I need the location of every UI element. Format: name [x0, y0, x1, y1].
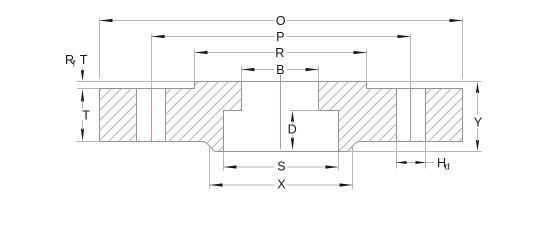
- raised face top extension line (left, for Rf arrow): [77, 81, 195, 83]
- svg-text:D: D: [288, 123, 297, 137]
- flange center line (vertical, pale red): [280, 75, 282, 149]
- R extension lines: [194, 50, 196, 81]
- D step extension line: [290, 110, 319, 112]
- svg-text:T: T: [82, 108, 90, 122]
- svg-text:f: f: [73, 58, 76, 69]
- svg-text:B: B: [276, 63, 284, 77]
- dimension S: [224, 166, 275, 168]
- hub bottom line across socket opening: [224, 151, 339, 153]
- X extension lines: [209, 147, 211, 190]
- Rf arrow (down to raised face top): [82, 67, 84, 72]
- dimension Y (vertical, right): [476, 82, 479, 93]
- bolt hole right (white): [397, 89, 425, 140]
- flange body right half (section, hatched): [319, 82, 463, 152]
- dimension Hd: [397, 162, 435, 164]
- svg-text:T: T: [80, 53, 88, 67]
- svg-text:R: R: [275, 46, 284, 60]
- bolt hole left (white): [137, 89, 165, 140]
- dimension X: [210, 184, 275, 186]
- svg-text:P: P: [276, 30, 284, 44]
- svg-text:S: S: [277, 159, 285, 173]
- P extension lines: [151, 34, 153, 88]
- raised face top line across bore: [195, 81, 367, 83]
- svg-text:X: X: [277, 178, 286, 192]
- S extension lines: [223, 152, 225, 171]
- B extension lines: [241, 67, 243, 82]
- dimension B: [242, 69, 275, 71]
- svg-text:d: d: [445, 162, 450, 173]
- O extension lines: [99, 18, 101, 79]
- flange top extension line (left, for T arrow): [77, 88, 100, 90]
- dimension P: [152, 36, 275, 38]
- svg-text:O: O: [276, 14, 286, 28]
- Y extension lines (top and bottom, right side): [367, 81, 482, 83]
- dimension D (vertical, center): [291, 111, 294, 122]
- Hd extension lines: [396, 142, 398, 169]
- dimension O: [100, 20, 275, 22]
- dimension T (vertical, left): [81, 89, 84, 102]
- bolt hole left centerline: [151, 89, 153, 142]
- flange bottom extension line (left): [76, 141, 100, 143]
- dimension R: [195, 52, 275, 54]
- flange body left half (section, hatched): [100, 82, 242, 152]
- bolt hole right centerline: [410, 89, 412, 142]
- svg-text:Y: Y: [474, 115, 483, 129]
